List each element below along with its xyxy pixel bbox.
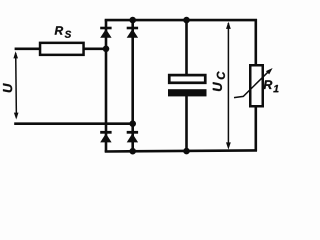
node top rail branch2: [129, 17, 136, 24]
node input A: [103, 46, 110, 53]
wire top rail: [105, 19, 257, 22]
voltage arrow UC: [226, 22, 231, 150]
arrow R1 variable: [234, 68, 273, 98]
wire bridge branch 1: [105, 20, 108, 152]
node bottom rail branch2: [129, 148, 136, 155]
capacitor C top plate: [169, 75, 205, 83]
label R1: [264, 80, 273, 89]
node input B: [129, 120, 136, 127]
label U: [3, 83, 12, 92]
diode D4: [127, 131, 138, 143]
capacitor C bottom plate: [168, 89, 207, 96]
resistor RS: [40, 43, 84, 55]
label UC: [213, 82, 222, 91]
label RS: [55, 26, 63, 34]
wire bridge branch 2: [131, 20, 134, 152]
wire right branch top: [255, 19, 258, 66]
diode D3: [100, 131, 111, 143]
wire bottom input: [14, 122, 133, 125]
diode D2: [127, 27, 138, 38]
wire top input: [15, 47, 106, 50]
resistor R1: [250, 65, 263, 106]
diode D1: [100, 27, 111, 38]
node top rail capacitor: [183, 17, 190, 24]
voltage arrow U: [13, 51, 18, 119]
wire capacitor branch top: [185, 20, 188, 76]
wire right branch bottom: [255, 107, 258, 152]
wire capacitor branch bottom: [185, 95, 188, 151]
node bottom rail capacitor: [183, 148, 190, 155]
wire bottom rail: [105, 150, 257, 151]
